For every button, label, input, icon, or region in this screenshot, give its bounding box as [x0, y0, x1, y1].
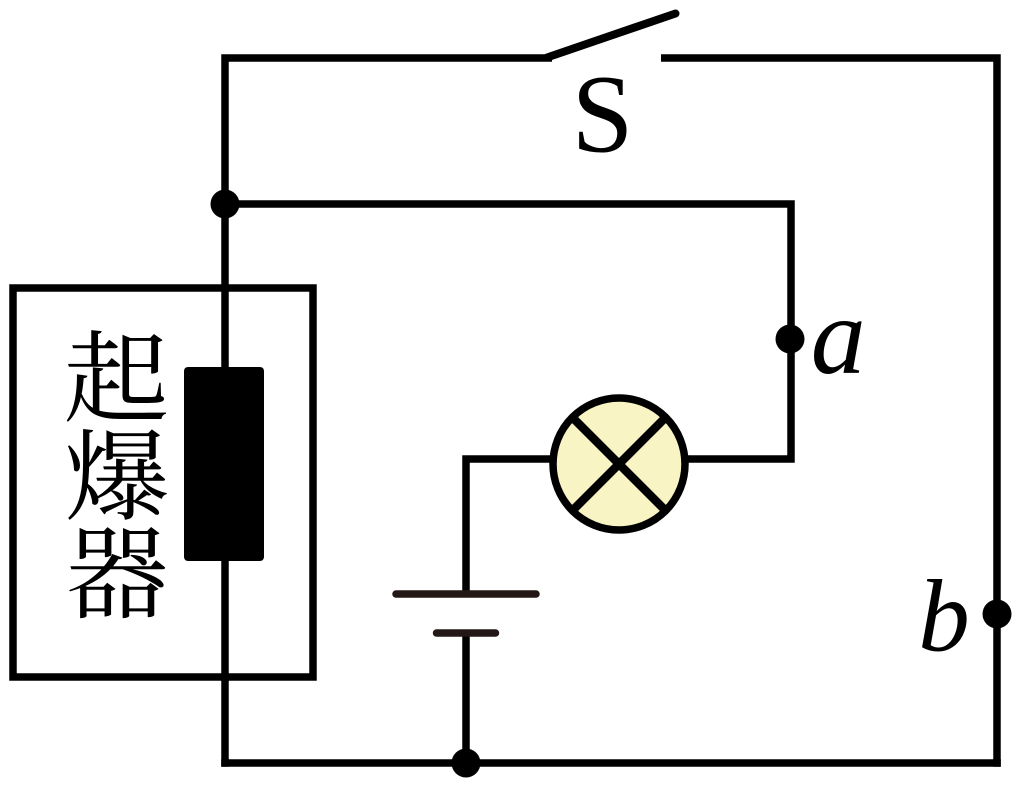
- svg-text:b: b: [918, 560, 970, 674]
- node b: [983, 600, 1012, 629]
- wire top-right: right rail from switch + right vertical: [661, 58, 997, 767]
- detonator element (black resistance block): [184, 367, 264, 561]
- node a: [776, 325, 805, 354]
- wire middle rail from junction to node a branch, down to lamp right terminal: [225, 204, 791, 459]
- svg-text:a: a: [811, 275, 866, 397]
- wire battery bottom lead to bottom junction: [462, 633, 470, 763]
- detonator label 起: [67, 330, 166, 422]
- detonator label 器: [69, 527, 165, 618]
- node junction top-left: [211, 190, 240, 219]
- switch S lever (open): [547, 14, 676, 58]
- battery long plate (+): [396, 590, 536, 598]
- detonator label 爆: [68, 429, 167, 520]
- battery short plate (-): [437, 629, 496, 637]
- detonator box: [13, 288, 313, 677]
- lamp (circle with cross): [553, 398, 685, 530]
- wire lamp left terminal to battery top plate: [466, 459, 600, 594]
- wire bottom rail: [221, 759, 1001, 767]
- node junction bottom: [452, 749, 481, 778]
- svg-text:S: S: [572, 54, 634, 177]
- wire top-left: top rail + left vertical down through detonator to bottom rail: [225, 58, 552, 767]
